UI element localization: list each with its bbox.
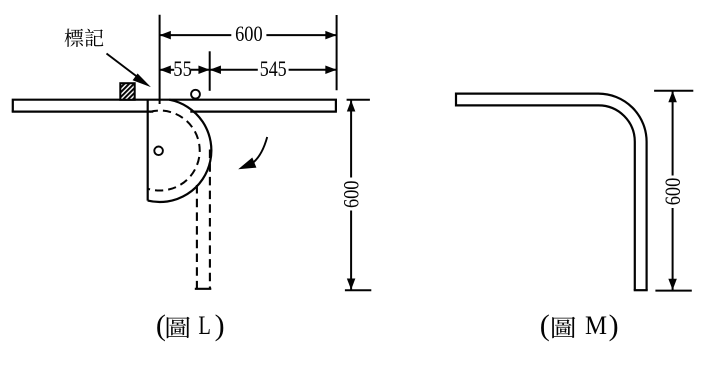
bar (figure L horizontal plank) — [12, 100, 337, 112]
dimension line 55 — [160, 69, 210, 71]
leader arrowhead — [133, 74, 151, 88]
rotation arrow arc — [252, 137, 267, 164]
hinge disc solid arc — [148, 100, 212, 202]
dim text 600 vertical figure L — [339, 181, 364, 209]
tube (figure M bent bar) — [456, 93, 648, 291]
dimension line 545 — [210, 69, 337, 71]
hole circle in disc — [154, 147, 163, 156]
svg-text:(: ( — [540, 309, 550, 342]
hinge disc inner dashed arc — [148, 111, 200, 191]
svg-text:): ) — [215, 309, 225, 342]
svg-text:(: ( — [156, 309, 166, 342]
svg-text:L: L — [198, 311, 211, 340]
svg-text:55: 55 — [173, 56, 192, 81]
pin circle above bar — [191, 90, 200, 99]
svg-text:545: 545 — [260, 56, 287, 81]
dim text 600 vertical figure M — [660, 178, 685, 206]
caption glyph 圖 M — [552, 317, 575, 338]
vertical dimension 600 (figure M) — [654, 91, 693, 291]
extension line right (x=336.6) — [336, 15, 338, 90]
dimension line 600 top — [160, 34, 337, 36]
svg-text:M: M — [585, 311, 607, 340]
label mark text 標 — [65, 29, 84, 47]
extension line left (x=159.6) — [159, 15, 161, 104]
folded bar hidden (dashed) — [195, 150, 212, 289]
svg-text:600: 600 — [339, 181, 364, 209]
caption glyph 圖 L — [167, 317, 190, 338]
svg-text:600: 600 — [660, 178, 685, 206]
label mark text 記 — [85, 29, 103, 47]
hatched mark box — [120, 83, 134, 100]
leader line for mark label — [107, 54, 144, 82]
vertical dimension 600 (figure L) — [345, 100, 371, 290]
hinge flat side line — [147, 100, 149, 201]
svg-text:600: 600 — [235, 21, 263, 46]
rotation arrowhead — [238, 158, 256, 170]
extension line middle (x=209.7) — [209, 51, 211, 91]
svg-text:): ) — [609, 309, 619, 342]
